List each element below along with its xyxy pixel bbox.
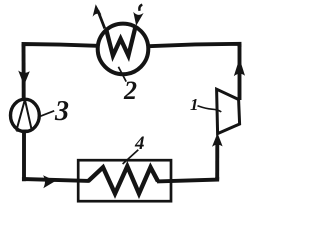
cooling water inlet arrowhead (pointing down)	[133, 12, 143, 26]
wire right side upper (turbine outlet up to corner)	[238, 44, 242, 100]
pump U3 circle	[11, 99, 40, 131]
heater R4 zigzag element	[88, 166, 158, 193]
cooler U2 W coil	[106, 28, 135, 56]
cooling water outlet line (upper-left)	[98, 11, 105, 29]
cooler U2 circle	[98, 24, 149, 75]
wire left side upper (corner to pump)	[22, 44, 26, 100]
leader line to label 2	[118, 67, 126, 82]
leader line to label 4	[123, 150, 139, 164]
wire bottom-left segment	[24, 179, 89, 181]
flow arrow up into turbine	[212, 133, 223, 147]
wire right side lower (corner up to turbine inlet)	[215, 140, 219, 180]
cooling water inlet line with hook	[139, 5, 142, 11]
label 4	[135, 134, 145, 153]
label 1	[190, 96, 199, 113]
wire top-left segment	[24, 44, 98, 47]
wire bottom-right segment	[157, 177, 217, 181]
wire top-right segment	[149, 44, 240, 47]
leader line to label 3	[40, 111, 54, 116]
label 2	[124, 78, 137, 104]
wire left side lower (pump to corner)	[22, 132, 26, 180]
flow arrow right on bottom wire	[43, 175, 56, 188]
label 3	[55, 98, 69, 126]
turbine U1 trapezoid	[217, 89, 240, 133]
pump U3 triangle	[16, 100, 32, 131]
leader line to label 1	[198, 106, 222, 112]
heater R4 rectangle	[78, 160, 171, 201]
flow arrow up on upper-right wire	[234, 58, 245, 76]
flow arrow down on left wire	[18, 71, 30, 86]
cooling water outlet arrowhead	[93, 4, 102, 17]
